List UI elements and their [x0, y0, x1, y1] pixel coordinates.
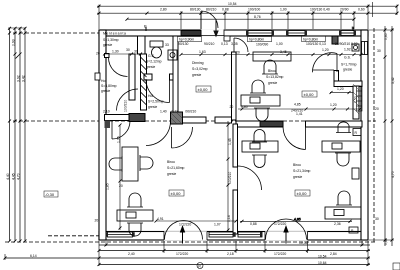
door arc hol1 to hol2 [117, 89, 139, 111]
svg-text:Hol: Hol [148, 94, 153, 98]
door arc corridor to birou 1 [146, 121, 171, 146]
svg-text:20: 20 [96, 52, 100, 56]
south door arrow 2 [284, 227, 288, 244]
window jamb blocks [106, 31, 357, 237]
exterior walls [99, 30, 368, 240]
wall GS2 bottom [334, 81, 362, 87]
pier GS2 [332, 36, 338, 44]
svg-text:-0,30: -0,30 [45, 192, 55, 197]
svg-text:1,41: 1,41 [296, 112, 303, 116]
section marker B top [144, 24, 355, 32]
svg-text:±0,00: ±0,00 [198, 87, 209, 92]
dimension line right v2 [391, 28, 393, 246]
desk b2134 left [242, 141, 278, 152]
svg-text:G.S.: G.S. [148, 54, 155, 58]
misc small texts [134, 42, 358, 91]
french door south 2 opening [265, 231, 308, 240]
svg-text:8,76: 8,76 [254, 15, 261, 19]
svg-text:1,92: 1,92 [344, 48, 351, 52]
desk b2134 bottom [325, 207, 361, 219]
door arcs [109, 11, 338, 240]
svg-text:90/130: 90/130 [178, 42, 188, 46]
wall left [99, 30, 106, 240]
wall H1 mentenanta [105, 54, 110, 58]
door arc corridor to birou 2 [172, 127, 193, 148]
svg-text:gresie: gresie [268, 81, 277, 85]
elevation marker birou2134 [295, 190, 310, 196]
door threshold GS2 [313, 69, 334, 71]
svg-text:gresie: gresie [293, 175, 302, 179]
svg-text:hp=0,80m: hp=0,80m [249, 38, 264, 42]
wall right [361, 30, 368, 240]
svg-text:1,20: 1,20 [322, 48, 329, 52]
desk b2134 right [322, 141, 360, 152]
dimension line top 2 [97, 12, 397, 14]
svg-text:90/210: 90/210 [204, 42, 214, 46]
svg-text:4,45: 4,45 [12, 173, 16, 180]
svg-text:S=21,34mp: S=21,34mp [293, 169, 311, 173]
desk birou1382 window [253, 52, 291, 61]
window W5b bottom [209, 232, 233, 237]
svg-text:10,54: 10,54 [318, 254, 327, 258]
svg-text:hp=0,80m: hp=0,80m [303, 38, 318, 42]
entrance jamb stub [224, 36, 230, 41]
svg-text:1,20: 1,20 [330, 103, 337, 107]
dimension line top 3 [127, 18, 354, 20]
svg-text:Dinning: Dinning [192, 61, 204, 65]
svg-text:gresie: gresie [146, 65, 155, 69]
svg-text:S=1,70mp: S=1,70mp [341, 63, 357, 67]
svg-text:0,60: 0,60 [358, 7, 365, 11]
axis line left wall center [102, 30, 104, 240]
svg-text:6,14: 6,14 [30, 254, 37, 258]
dimension line left v2 [19, 28, 21, 242]
window W7 bottom [108, 232, 133, 237]
wall V3 dinning [173, 36, 178, 114]
chair bottom [127, 223, 143, 236]
nook radiator tall [357, 86, 363, 111]
door leaves [169, 79, 171, 103]
chair [262, 60, 278, 74]
interior dim line dinning row [105, 54, 362, 232]
desk birou2160 bottom [117, 210, 153, 221]
svg-text:gresie: gresie [167, 172, 176, 176]
desk birou1382 [241, 95, 280, 106]
axis line middle [13, 120, 376, 122]
axis line bottom wall center [48, 235, 368, 237]
svg-text:1,50: 1,50 [354, 96, 358, 103]
svg-text:gresie: gresie [148, 105, 157, 109]
WC GS1 [141, 41, 360, 105]
page corner box [393, 263, 400, 270]
svg-text:1,07: 1,07 [214, 223, 221, 227]
axis line bottom [5, 241, 376, 243]
door arc GS2 [312, 53, 337, 73]
svg-text:4,40: 4,40 [6, 173, 10, 180]
radiator R boxes [349, 129, 361, 234]
svg-text:±0,00: ±0,00 [304, 92, 315, 97]
svg-text:30: 30 [377, 49, 381, 53]
wall GS2 left drop [334, 71, 339, 83]
svg-text:20: 20 [236, 51, 240, 55]
chair left [109, 156, 122, 172]
window W2 top [248, 31, 272, 36]
entrance opening [201, 29, 224, 36]
svg-text:±0,00: ±0,00 [171, 191, 182, 196]
svg-text:S=1,30mp: S=1,30mp [103, 38, 119, 42]
wall GS bottom a [144, 74, 152, 80]
svg-text:3,42: 3,42 [391, 77, 395, 84]
svg-text:1,45: 1,45 [228, 138, 232, 145]
wall V1 [129, 54, 135, 100]
dimension line left v0 [9, 28, 11, 242]
wall top [99, 30, 368, 36]
axis line right vertical [373, 28, 375, 242]
hatch band V2 [141, 57, 147, 105]
dimension texts top [160, 2, 365, 19]
window W4 top [341, 31, 354, 36]
svg-text:1,30: 1,30 [112, 50, 119, 54]
svg-text:1,14: 1,14 [227, 215, 231, 222]
svg-text:20/90/210 0,90: 20/90/210 0,90 [335, 42, 358, 46]
svg-text:80/210: 80/210 [206, 7, 216, 11]
svg-text:20: 20 [375, 107, 379, 111]
svg-text:0,13: 0,13 [221, 42, 228, 46]
radiator [352, 168, 359, 179]
svg-text:gresie: gresie [192, 73, 201, 77]
svg-text:1,00: 1,00 [276, 42, 283, 46]
svg-text:30: 30 [375, 217, 379, 221]
svg-text:2,40: 2,40 [128, 252, 135, 256]
svg-text:100/210: 100/210 [124, 100, 128, 112]
svg-text:3,92: 3,92 [17, 75, 21, 82]
svg-text:100/100: 100/100 [248, 7, 260, 11]
svg-text:3,05: 3,05 [231, 42, 238, 46]
svg-text:S=2,50mp: S=2,50mp [148, 100, 164, 104]
desk birou2160 tall [122, 147, 138, 181]
svg-text:3,45: 3,45 [280, 50, 287, 54]
svg-text:20: 20 [95, 219, 99, 223]
interior dimension texts [95, 42, 381, 227]
svg-text:4,85: 4,85 [294, 217, 301, 221]
french window arcs W5 [165, 221, 203, 240]
dark corner pier [105, 121, 111, 129]
chair mid [127, 193, 143, 207]
entrance arrow [214, 19, 218, 36]
svg-text:10,54: 10,54 [228, 2, 237, 6]
elevation marker birou2160 [169, 190, 184, 196]
wall bottom [99, 232, 368, 241]
wall between birous [233, 124, 238, 167]
chair below [252, 155, 267, 168]
axis line top wall [13, 32, 368, 34]
svg-text:1,85: 1,85 [106, 183, 110, 190]
wall above mentenanta right [138, 36, 146, 54]
pier corridor [171, 112, 183, 124]
elevation marker -0,30 [44, 191, 58, 197]
pier hatches [171, 84, 359, 124]
svg-text:2,10: 2,10 [103, 110, 110, 114]
svg-text:0,60: 0,60 [384, 33, 388, 40]
axis dashed lines [5, 28, 376, 242]
svg-text:100/130 0,13: 100/130 0,13 [306, 42, 326, 46]
svg-text:S=21,60mp: S=21,60mp [167, 166, 185, 170]
dark wall fill left of door [260, 121, 283, 126]
svg-text:/90/210: /90/210 [185, 110, 196, 114]
door arc entrance to birou1382 [234, 38, 248, 52]
svg-text:±0,00: ±0,00 [297, 191, 308, 196]
chair below r [335, 153, 351, 166]
circled mark bottom [197, 263, 203, 269]
axis line right wall center [364, 30, 366, 240]
door leaf entrance [200, 11, 202, 29]
elevation marker birou1382 [302, 91, 317, 97]
door arc GS1 [146, 79, 170, 103]
svg-text:2,80: 2,80 [160, 7, 167, 11]
svg-text:gresie: gresie [343, 68, 352, 72]
sink GS2 [352, 44, 359, 51]
svg-text:2,36: 2,36 [334, 222, 341, 226]
dimension line top 1 [97, 5, 397, 7]
dimension texts bottom [30, 241, 337, 265]
svg-text:10,36: 10,36 [299, 241, 308, 245]
french window arcs W6 [266, 219, 307, 240]
svg-text:2,18: 2,18 [227, 252, 234, 256]
svg-text:hp=0,90m: hp=0,90m [179, 38, 194, 42]
svg-text:100/130 0,40: 100/130 0,40 [310, 7, 330, 11]
chair b2134 [252, 130, 267, 143]
svg-text:Hol: Hol [101, 79, 106, 83]
svg-text:1,40: 1,40 [160, 110, 167, 114]
dimension line bottom 4 [99, 264, 370, 266]
svg-text:80/130: 80/130 [190, 7, 200, 11]
chair [250, 80, 266, 93]
window W3 top [288, 31, 305, 36]
svg-text:172/220: 172/220 [176, 252, 188, 256]
dimension line right v1 [384, 28, 386, 246]
wall GS bottom b [170, 74, 177, 80]
svg-text:172/220: 172/220 [179, 223, 191, 227]
wall between birous lower [233, 190, 238, 234]
sink GS1 [168, 50, 177, 60]
wall middle MD right [306, 121, 363, 127]
svg-text:G.S.: G.S. [344, 56, 351, 60]
door arc mentenanta H1 [109, 58, 128, 77]
wall middle MC b [215, 117, 232, 123]
rotated dimension texts right [106, 33, 396, 245]
svg-text:1,00: 1,00 [280, 7, 287, 11]
svg-text:Birou: Birou [268, 69, 276, 73]
door arc between birous [238, 166, 262, 190]
wall middle MA [105, 115, 130, 121]
interior walls [105, 36, 363, 234]
dimension line left v1 [14, 28, 16, 242]
french door south 1 opening [164, 231, 207, 240]
furniture [109, 52, 361, 236]
chair [254, 108, 270, 121]
window W5c bottom [238, 232, 262, 237]
svg-text:20/90: 20/90 [340, 7, 349, 11]
chair b2134 r1 [336, 122, 351, 133]
svg-text:0,88: 0,88 [222, 7, 229, 11]
svg-text:100/090: 100/090 [256, 43, 268, 47]
svg-text:3,42: 3,42 [22, 75, 26, 82]
svg-text:Mentenanta: Mentenanta [103, 32, 126, 36]
svg-text:4,70: 4,70 [17, 173, 21, 180]
chair right [140, 155, 153, 171]
window W1 top sill dark [181, 31, 201, 36]
wall nook right [353, 86, 359, 119]
svg-text:Birou: Birou [293, 163, 301, 167]
room labels [101, 32, 357, 179]
svg-text:S=13,82mp: S=13,82mp [266, 75, 284, 79]
chair b2134 br [336, 191, 352, 205]
svg-text:Birou: Birou [167, 160, 175, 164]
elevation marker dinning [196, 86, 211, 92]
svg-text:10,64: 10,64 [318, 261, 327, 265]
svg-text:20: 20 [119, 184, 123, 188]
niche left wall [95, 73, 100, 80]
svg-text:0,93: 0,93 [12, 39, 16, 46]
svg-text:0,88: 0,88 [250, 222, 257, 226]
south door arrow 1 [181, 227, 185, 244]
window hp texts [178, 36, 326, 41]
door arc entrance top [201, 11, 218, 28]
wall middle MC a [183, 117, 207, 123]
window W8 right wall [362, 42, 368, 55]
svg-text:S=3,80mp: S=3,80mp [101, 84, 117, 88]
svg-text:gresie: gresie [103, 43, 112, 47]
svg-text:gresie: gresie [101, 89, 110, 93]
svg-text:4,91: 4,91 [157, 217, 164, 221]
svg-text:30: 30 [126, 48, 130, 52]
svg-text:33: 33 [165, 43, 169, 47]
windows [108, 31, 368, 241]
svg-text:2,84: 2,84 [330, 252, 337, 256]
dimension line bottom 2 [99, 250, 370, 252]
svg-text:20: 20 [230, 105, 234, 109]
dimension line bottom 3 [5, 257, 370, 259]
svg-text:4,70: 4,70 [391, 171, 395, 178]
svg-text:30: 30 [134, 50, 138, 54]
svg-text:100/210: 100/210 [228, 172, 232, 184]
svg-text:172/220: 172/220 [274, 252, 286, 256]
rotated dimension texts left [6, 39, 26, 180]
wall V2 gs left [141, 54, 147, 110]
wall middle MD left [236, 121, 283, 127]
svg-text:S=2,12mp: S=2,12mp [146, 60, 162, 64]
dark chunk wall [129, 114, 145, 122]
svg-text:172/220: 172/220 [274, 222, 286, 226]
door arc birou1334 [283, 127, 306, 150]
door arc hol1 to birou [112, 121, 130, 139]
svg-text:1,20: 1,20 [337, 87, 344, 91]
svg-text:4,85: 4,85 [294, 103, 301, 107]
dimension line left v3 [24, 28, 26, 242]
rotated dim texts inner [227, 138, 232, 222]
dimension line bottom 1 [99, 244, 370, 246]
svg-text:S=3,02mp: S=3,02mp [192, 67, 208, 71]
wall dinning-birou right [232, 52, 237, 120]
